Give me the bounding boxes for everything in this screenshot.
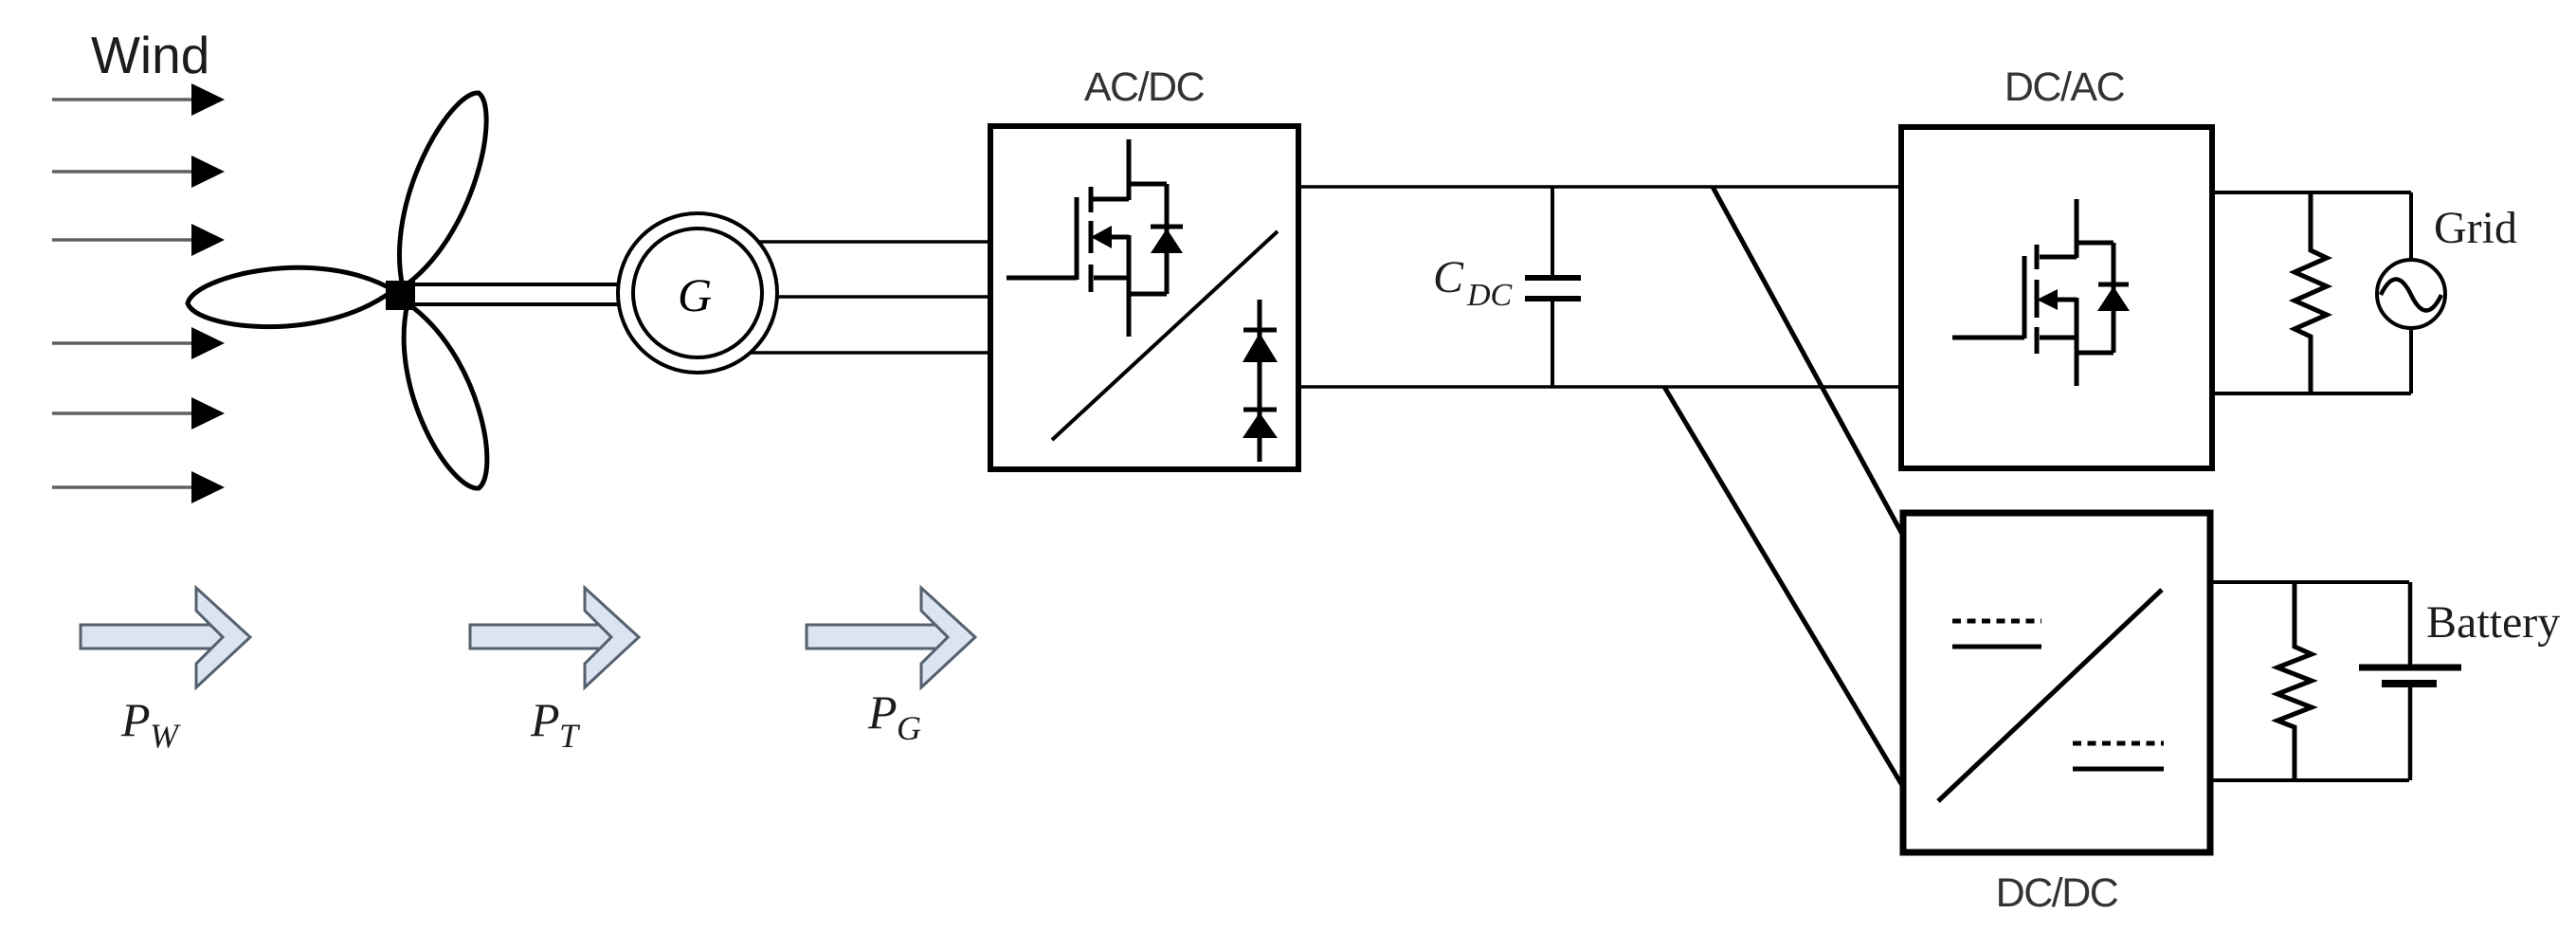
AC/DC slash symbol	[1052, 231, 1278, 440]
DC symbol lower-right	[2073, 743, 2164, 769]
wind arrow 5	[52, 397, 225, 429]
DC/DC slash symbol	[1938, 590, 2162, 801]
label P_T	[530, 693, 581, 755]
wire DC/AC to grid bottom	[2212, 392, 2411, 395]
resistor R1 (grid)	[2295, 192, 2327, 393]
converter box DC/DC	[1903, 513, 2210, 852]
turbine blade upper	[399, 93, 486, 287]
svg-text:Grid: Grid	[2434, 203, 2517, 253]
resistor R2 (battery)	[2277, 582, 2312, 780]
phase wire a	[758, 240, 990, 244]
body diode D4 of Q2	[2097, 243, 2130, 353]
turbine shaft	[408, 284, 621, 304]
svg-text:P: P	[120, 693, 151, 746]
wind arrow 1	[52, 83, 225, 116]
wire bottom DC bus	[1298, 385, 1901, 389]
svg-text:Battery: Battery	[2426, 597, 2560, 648]
mosfet Q1 substrate arrowhead	[1091, 226, 1112, 248]
svg-text:Wind: Wind	[91, 26, 209, 84]
wire DC/DC to battery top	[2210, 580, 2409, 584]
power flow arrow P_W	[81, 588, 250, 687]
label P_G	[867, 685, 921, 747]
phase wire c	[750, 351, 990, 355]
converter box DC/AC	[1901, 127, 2212, 468]
label C_DC	[1433, 252, 1513, 313]
svg-text:P: P	[530, 693, 560, 746]
wire DC bus to DC/DC top diagonal	[1713, 187, 1903, 536]
battery B1	[2359, 582, 2461, 780]
mosfet Q1	[1007, 139, 1167, 337]
svg-text:G: G	[897, 709, 921, 747]
svg-text:AC/DC: AC/DC	[1084, 64, 1205, 110]
wind arrow 4	[52, 327, 225, 359]
svg-text:P: P	[867, 685, 898, 739]
converter box AC/DC	[990, 126, 1298, 469]
svg-text:G: G	[678, 268, 712, 321]
phase wire b	[775, 295, 990, 299]
svg-text:W: W	[150, 717, 181, 755]
label P_W	[120, 693, 181, 755]
wire DC/DC to battery bottom	[2210, 778, 2409, 782]
wire DC bus to DC/DC bottom diagonal	[1664, 387, 1903, 787]
capacitor C_DC	[1525, 187, 1581, 387]
mosfet Q2	[1952, 199, 2113, 386]
turbine blade left	[188, 267, 393, 326]
DC symbol upper-left	[1952, 621, 2041, 647]
svg-text:DC/AC: DC/AC	[2005, 64, 2125, 110]
svg-text:DC: DC	[1466, 278, 1513, 313]
diode D3	[1243, 410, 1278, 438]
wind arrow 2	[52, 155, 225, 188]
diode D2	[1243, 300, 1278, 462]
svg-text:DC/DC: DC/DC	[1996, 870, 2118, 916]
mosfet Q2 substrate arrowhead	[2037, 289, 2058, 310]
svg-text:C: C	[1433, 252, 1464, 302]
power flow arrow P_T	[470, 588, 639, 687]
wind arrow 3	[52, 224, 225, 256]
turbine hub	[386, 281, 415, 310]
wind arrow 6	[52, 471, 225, 503]
wire DC/AC to grid top	[2212, 191, 2411, 194]
generator G	[618, 213, 777, 373]
body diode D1 of Q1	[1151, 184, 1183, 294]
svg-text:T: T	[559, 717, 581, 755]
wire top DC bus	[1298, 185, 1901, 189]
turbine blade lower	[404, 303, 487, 488]
power flow arrow P_G	[807, 588, 975, 687]
AC source (grid)	[2377, 192, 2445, 393]
